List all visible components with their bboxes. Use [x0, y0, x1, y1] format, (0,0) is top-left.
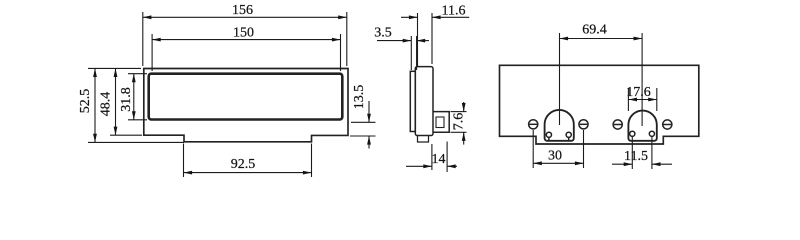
- dimension 69.4: [560, 38, 643, 40]
- right cluster horseshoe: [628, 111, 656, 141]
- svg-text:14: 14: [432, 152, 446, 167]
- dimension 7.6: [451, 102, 467, 145]
- left cluster screw A: [546, 132, 551, 140]
- left terminal cluster centerline: [559, 33, 561, 125]
- right terminal cluster centerline: [641, 33, 643, 126]
- dimension 30: [533, 130, 583, 168]
- dimension 156: [143, 12, 347, 66]
- rear view body outline: [500, 65, 699, 144]
- side view bezel: [410, 71, 415, 131]
- svg-text:3.5: 3.5: [374, 26, 392, 41]
- front view display window: [149, 74, 343, 120]
- svg-text:11.6: 11.6: [442, 4, 466, 19]
- svg-text:52.5: 52.5: [78, 89, 93, 114]
- front view body outline: [144, 69, 348, 142]
- svg-text:31.8: 31.8: [119, 87, 134, 112]
- terminal screw 2: [579, 120, 588, 129]
- dimension 17.6: [628, 88, 656, 111]
- left cluster horseshoe: [545, 110, 574, 141]
- svg-text:17.6: 17.6: [626, 85, 651, 100]
- svg-text:150: 150: [233, 25, 254, 40]
- dimension 92.5: [184, 144, 312, 178]
- right cluster screw A: [630, 131, 635, 136]
- right cluster screw B: [649, 131, 654, 136]
- dimension 52.5: [88, 68, 184, 142]
- side view bottom tab: [418, 136, 429, 143]
- svg-text:92.5: 92.5: [231, 157, 256, 172]
- dimension 11.6: [401, 13, 469, 66]
- svg-text:30: 30: [548, 149, 562, 164]
- side view rear terminal tab: [433, 112, 449, 133]
- terminal screw 4: [663, 120, 672, 129]
- dimension 14: [406, 142, 457, 173]
- svg-text:48.4: 48.4: [99, 92, 114, 117]
- terminal screw 3: [613, 120, 622, 129]
- svg-text:156: 156: [232, 3, 253, 18]
- dimension 11.5: [612, 137, 672, 170]
- dimension 48.4: [110, 68, 142, 135]
- svg-text:7.6: 7.6: [452, 113, 467, 131]
- dimension 150: [152, 34, 340, 71]
- terminal screw 1: [529, 120, 538, 129]
- dimension 3.5: [377, 36, 429, 70]
- svg-text:11.5: 11.5: [624, 149, 648, 164]
- svg-text:69.4: 69.4: [582, 23, 607, 38]
- left cluster screw B: [566, 132, 571, 140]
- side view case: [415, 67, 433, 136]
- dimension 13.5: [350, 101, 376, 149]
- dimension 31.8: [128, 74, 147, 120]
- svg-text:13.5: 13.5: [352, 85, 367, 110]
